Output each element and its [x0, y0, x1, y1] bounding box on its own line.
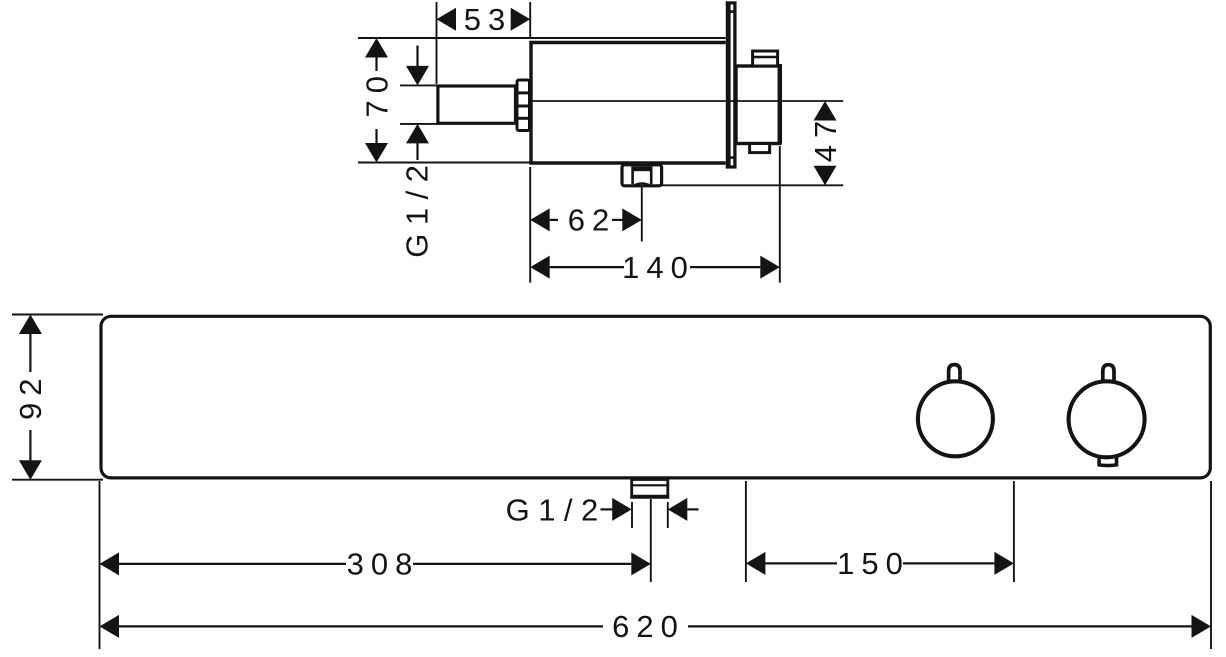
G1/2 left-pointing arrow — [668, 498, 688, 521]
pipe thread / nut — [517, 80, 530, 131]
extension stubs below fitting — [631, 502, 633, 528]
dimension 53: left arrow — [437, 8, 457, 31]
svg-text:62: 62 — [568, 203, 616, 238]
svg-text:G1/2: G1/2 — [506, 493, 607, 528]
extension line: 140 right — [779, 146, 781, 283]
wall plate bottom slot line — [730, 156, 735, 159]
extension line: fitting centre — [650, 499, 652, 582]
wall valve main block — [736, 66, 780, 144]
extension line: 150 left — [745, 481, 747, 582]
svg-text:53: 53 — [464, 2, 512, 37]
pipe extent arrow top (points down) — [416, 46, 418, 68]
dimension 47: down arrow — [814, 166, 837, 186]
knob 2 (right) circle — [1069, 381, 1145, 457]
dimension 53: right arrow — [511, 8, 531, 31]
svg-text:92: 92 — [13, 372, 48, 420]
dimension 140 — [530, 256, 550, 279]
knob 2 top tab — [1103, 365, 1114, 383]
svg-text:70: 70 — [359, 69, 394, 117]
extension stub: pipe top edge — [400, 84, 437, 86]
dimension 92: down arrow — [19, 460, 42, 480]
dimension 70: line segments — [375, 57, 377, 71]
extension line: bar left (308/620) — [99, 481, 101, 649]
extension line: 140/62 left — [529, 167, 531, 283]
pipe extent arrow bottom (points up) — [416, 143, 418, 161]
wall valve right edge (thick) — [778, 64, 783, 144]
centre line through body and valve — [532, 100, 843, 102]
dimension 70: up arrow — [365, 38, 388, 58]
extension stub: pipe bottom edge — [400, 123, 437, 125]
wall plate — [726, 1, 737, 168]
extension line: 150 right — [1013, 481, 1015, 582]
svg-text:150: 150 — [837, 546, 910, 581]
extension line: 70 bottom — [358, 162, 531, 164]
extension line: 92 top — [12, 314, 103, 316]
knob 1 (left) circle — [918, 381, 993, 456]
wall valve top tab — [753, 51, 778, 66]
dimension 308 — [100, 552, 120, 575]
dimension 620 — [100, 615, 120, 638]
dimension 92: up arrow — [19, 315, 42, 335]
svg-text:140: 140 — [622, 250, 695, 285]
svg-text:620: 620 — [612, 609, 685, 644]
extension line: 62 right (fitting centre) — [641, 187, 643, 242]
knob 2 bottom tab — [1099, 456, 1116, 466]
svg-text:47: 47 — [808, 114, 843, 162]
bottom fitting (G1/2 nut under body) — [622, 165, 662, 186]
svg-text:G1/2: G1/2 — [399, 156, 434, 257]
knob 1 top tab — [949, 365, 960, 382]
wall plate top slot line — [730, 10, 735, 13]
mixer bar (front view) — [101, 316, 1210, 478]
dimension 70: down arrow — [365, 143, 388, 163]
dimension 47: up arrow — [814, 101, 837, 121]
G1/2 right-pointing arrow — [601, 508, 614, 510]
wall valve bottom tab — [750, 144, 770, 153]
extension line: 70 top — [358, 37, 727, 39]
dimension 92: line segments — [29, 333, 31, 373]
extension line: 92 bottom — [12, 479, 103, 481]
extension line: bar right (620) — [1210, 481, 1212, 649]
reference line for 47 (bottom of fitting) — [662, 184, 843, 186]
extension line: 53 right (body front face) — [529, 2, 531, 38]
extension line: 53 left (pipe front face) — [436, 2, 438, 84]
G1/2 fitting under bar — [632, 480, 668, 498]
mixer body (side view) — [531, 43, 727, 164]
pipe (shower connector) — [438, 86, 516, 123]
svg-text:308: 308 — [347, 547, 420, 582]
dimension 150 — [746, 552, 766, 575]
dimension 62 — [530, 208, 550, 231]
